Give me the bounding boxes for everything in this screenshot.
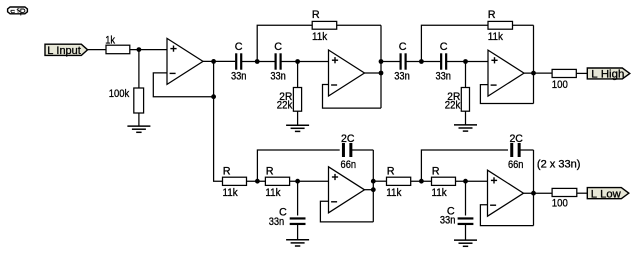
wire to 2R 22k	[465, 62, 467, 88]
svg-text:22k: 22k	[277, 99, 293, 111]
svg-text:33n: 33n	[270, 71, 286, 83]
resistor 2R 22k HP1	[293, 88, 301, 112]
wire R to op-amp U5 +	[456, 180, 488, 182]
capacitor C 33n	[441, 53, 446, 69]
resistor R 11k LP2b	[432, 177, 456, 185]
resistor R 11k feedback HP2	[488, 21, 513, 29]
ground	[454, 240, 477, 246]
wire 2C to output node	[351, 149, 373, 151]
junction HP1 feedback tap	[255, 59, 260, 64]
svg-text:R: R	[432, 166, 440, 178]
wire 2R to ground	[465, 111, 467, 125]
wire to C 33n	[465, 181, 467, 215]
wire 100 to L High tag	[576, 72, 587, 74]
svg-text:66n: 66n	[341, 159, 357, 171]
wire to C 33n	[297, 181, 299, 215]
svg-text:R: R	[387, 166, 395, 178]
junction U4 output	[371, 187, 376, 192]
junction U1 feedback	[211, 94, 216, 99]
wire feedback tap up to 2C	[257, 150, 339, 181]
svg-text:66n: 66n	[508, 159, 524, 171]
wire 2R to ground	[297, 111, 299, 125]
wire U1 output to C	[203, 60, 235, 62]
junction LP1 feedback tap	[255, 179, 260, 184]
wire feedback tap up to 2C	[421, 150, 508, 181]
svg-text:R: R	[223, 166, 231, 178]
resistor R 11k LP1b	[265, 177, 289, 185]
svg-text:11k: 11k	[223, 187, 239, 199]
svg-text:C: C	[274, 41, 282, 53]
junction HP2 feedback tap	[419, 59, 424, 64]
wire U2 - feedback loop	[323, 85, 382, 109]
ground	[286, 125, 309, 131]
wire U3 output to 100	[524, 72, 552, 74]
wire U4 output	[365, 189, 374, 191]
wire input tag to R 1k	[88, 49, 106, 51]
wire 100k to ground	[138, 113, 140, 126]
svg-text:R: R	[266, 166, 274, 178]
wire LP1 output to R	[373, 180, 386, 182]
resistor 100k	[134, 88, 144, 113]
wire R 11k to output node	[337, 24, 381, 26]
resistor R 11k LP1a	[223, 177, 247, 185]
junction input node	[137, 47, 142, 52]
wire R to R	[247, 180, 266, 182]
wire R to R	[411, 180, 432, 182]
resistor 100 output HP	[552, 69, 576, 77]
ground	[286, 240, 309, 246]
capacitor 2C 66n LP1	[343, 143, 350, 157]
resistor R 11k feedback HP1	[312, 21, 337, 29]
svg-text:L Low: L Low	[591, 188, 621, 200]
capacitor C 33n	[401, 53, 406, 69]
wire U4 - feedback loop	[320, 201, 373, 222]
svg-text:100: 100	[552, 79, 568, 91]
wire U1 output down to low-pass R	[214, 62, 223, 182]
wire 100 to L Low tag	[577, 192, 587, 194]
svg-text:22k: 22k	[445, 99, 461, 111]
wire C to op-amp U3 +	[446, 61, 488, 63]
svg-text:11k: 11k	[488, 31, 504, 43]
svg-text:(2 x 33n): (2 x 33n)	[537, 159, 581, 171]
wire LP2 feedback vertical	[533, 150, 535, 226]
svg-text:11k: 11k	[312, 31, 328, 43]
wire R 11k to output node	[513, 24, 534, 26]
wire 2C to output node	[519, 149, 533, 151]
wire C to ground	[465, 225, 467, 241]
svg-text:11k: 11k	[432, 187, 448, 199]
wire U5 - feedback loop	[480, 205, 533, 226]
svg-text:C: C	[440, 41, 448, 53]
capacitor C 33n	[276, 53, 281, 69]
svg-text:33n: 33n	[435, 71, 451, 83]
wire U4 output jog and feedback vertical	[372, 150, 374, 222]
svg-text:R: R	[488, 9, 496, 21]
wire C to op-amp U2 +	[281, 61, 329, 63]
capacitor C 33n LP2	[458, 218, 474, 224]
wire U2 output	[365, 72, 382, 74]
output tag L Low	[587, 188, 629, 201]
junction U1 output	[211, 59, 216, 64]
wire to 2R 22k	[297, 62, 299, 88]
svg-text:100k: 100k	[109, 88, 130, 100]
junction HP1 2R tap	[295, 59, 300, 64]
svg-text:33n: 33n	[269, 216, 285, 228]
resistor 1k	[106, 45, 130, 54]
op-amp U1 buffer	[167, 38, 203, 84]
junction U3 output	[531, 71, 536, 76]
wire HP2 feedback vertical	[533, 25, 535, 103]
junction LP2 feedback tap	[419, 179, 424, 184]
svg-text:33n: 33n	[231, 71, 247, 83]
input tag L Input	[45, 44, 88, 57]
junction U5 output	[531, 191, 536, 196]
wire U5 output to 100	[524, 192, 553, 194]
capacitor C 33n	[236, 53, 241, 69]
junction U2 output	[379, 71, 384, 76]
resistor 2R 22k HP2	[461, 88, 469, 112]
wire U2 output jog and feedback vertical	[380, 25, 382, 108]
wire R to op-amp U4 +	[290, 180, 329, 182]
wire feedback tap up to R 11k	[257, 25, 312, 61]
ground	[127, 126, 150, 132]
svg-text:C: C	[399, 41, 407, 53]
svg-text:100: 100	[552, 197, 568, 209]
ground	[454, 125, 477, 131]
wire C to C	[406, 61, 442, 63]
op-amp U3 high-pass 2	[488, 50, 524, 96]
wire U1 - feedback loop	[153, 73, 213, 97]
wire HP1 output to C	[381, 61, 401, 63]
svg-text:C: C	[235, 41, 243, 53]
junction HP1 output node	[379, 59, 384, 64]
svg-text:11k: 11k	[265, 187, 281, 199]
resistor 100 output LP	[552, 188, 577, 196]
svg-text:33n: 33n	[394, 71, 410, 83]
wire feedback tap up to R 11k	[421, 25, 488, 61]
output tag L High	[587, 68, 630, 81]
resistor R 11k LP2a	[387, 177, 411, 185]
ESP logo	[8, 7, 28, 16]
wire to 100k	[138, 50, 140, 88]
wire C to ground	[297, 225, 299, 240]
op-amp U5 low-pass 2	[488, 170, 524, 216]
junction LP2 C tap	[463, 179, 468, 184]
svg-text:R: R	[312, 9, 320, 21]
capacitor C 33n LP1	[290, 218, 306, 224]
wire C to C	[241, 61, 275, 63]
svg-text:33n: 33n	[440, 215, 456, 227]
op-amp U2 high-pass 1	[329, 50, 365, 96]
junction LP1 C tap	[295, 179, 300, 184]
svg-text:L Input: L Input	[47, 45, 81, 57]
svg-text:11k: 11k	[386, 187, 402, 199]
op-amp U4 low-pass 1	[329, 167, 365, 213]
svg-text:L High: L High	[591, 69, 624, 81]
junction HP2 2R tap	[463, 59, 468, 64]
wire U3 - feedback loop	[480, 85, 533, 104]
junction LP1 output node	[371, 179, 376, 184]
capacitor 2C 66n LP2	[512, 143, 519, 157]
wire R 1k to op-amp U1 +	[130, 49, 167, 51]
